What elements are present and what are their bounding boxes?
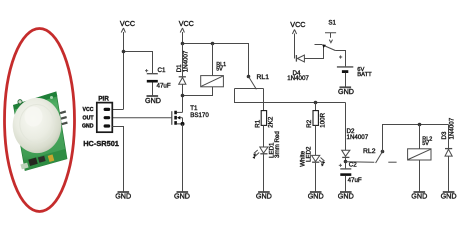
svg-text:1N4007: 1N4007 [347,134,369,141]
wire VCC rail to C1 [124,52,153,74]
svg-text:100R: 100R [320,112,327,127]
svg-text:GND: GND [145,96,161,105]
svg-text:VCC: VCC [179,19,194,28]
svg-text:S1: S1 [328,20,336,27]
node junction coil/drain [181,94,185,98]
svg-text:VCC: VCC [83,107,94,113]
svg-text:C1: C1 [158,67,166,74]
ground below T1 source [177,191,189,193]
svg-text:BATT: BATT [357,72,372,78]
diode D2 1N4007 [342,103,350,169]
ground below LED2 [310,191,322,193]
ground below battery [340,86,352,88]
relay contact RL2 [376,125,449,164]
wire contact to R1 [263,89,265,111]
resistor R2 100R [313,103,318,156]
ground below C2 [340,191,352,193]
capacitor C2 47uF [339,164,352,192]
svg-text:BS170: BS170 [190,112,209,119]
svg-text:LED2: LED2 [305,146,312,162]
wire PIR GND pin down [112,127,123,193]
svg-text:OUT: OUT [83,115,95,121]
ground below LED1 [258,191,270,193]
wire to RL2 contact [346,161,375,163]
ground below C1 [147,95,159,97]
svg-text:GND: GND [441,192,457,201]
diode D4 1N4007 [296,45,323,62]
battery 6V BATT [337,55,353,87]
connector PIR labels [82,96,119,149]
svg-text:GND: GND [308,192,324,201]
svg-text:PIR: PIR [98,96,109,103]
node junction RL2 coil tap [418,123,422,127]
svg-text:5V: 5V [422,141,429,147]
svg-text:GND: GND [256,192,272,201]
svg-text:R2: R2 [306,119,313,127]
transistor T1 BS170 (n-mosfet) [112,111,184,192]
svg-text:RL2: RL2 [363,148,376,155]
ground below D3 [443,191,455,193]
svg-text:2K2: 2K2 [268,116,275,128]
LED1 3mm Red [253,147,269,192]
node junction VCC2 [181,42,185,46]
svg-text:3mm Red: 3mm Red [274,131,281,158]
relay contact RL1 [235,75,264,90]
svg-text:1N4007: 1N4007 [448,117,455,139]
svg-text:C2: C2 [349,162,357,169]
svg-text:1N4007: 1N4007 [183,50,190,72]
svg-text:VCC: VCC [120,19,135,28]
wire PIR VCC pin to VCC rail [112,109,123,111]
power VCC (net 1) [121,28,125,109]
wire contact to load bus [235,89,346,103]
ground below PIR [118,191,130,193]
resistor R1 2K2 [261,111,266,147]
svg-text:GND: GND [174,192,190,201]
svg-text:47uF: 47uF [348,177,362,184]
relay coil RL2 5V [408,125,431,193]
node junction coil tap [211,42,215,46]
capacitor C1 47uF [145,69,158,96]
node junction VCC/C1 [122,50,126,54]
svg-text:GND: GND [338,87,354,96]
svg-text:GND: GND [82,124,94,130]
svg-text:GND: GND [115,192,131,201]
svg-text:D3: D3 [441,131,448,139]
svg-text:R1: R1 [255,119,262,127]
connector PIR (HC-SR501) [97,103,113,133]
power VCC (net 3, battery side) [292,30,296,59]
red highlight ellipse [5,29,75,212]
svg-text:GND: GND [338,192,354,201]
svg-text:HC-SR501: HC-SR501 [83,139,119,148]
LED2 White [312,155,326,192]
svg-text:5V: 5V [216,67,223,73]
diode D3 1N4007 [445,125,452,193]
svg-text:GND: GND [411,192,427,201]
svg-text:47uF: 47uF [157,83,171,90]
svg-text:RL1: RL1 [257,74,270,81]
power VCC (net 2) [180,28,184,44]
svg-text:VCC: VCC [290,20,305,29]
node junction D2/C2/contact [344,160,348,164]
pin labels [82,107,94,130]
node junction R2 tap [314,101,318,105]
relay coil RL1 5V [183,44,224,96]
PIR module photo [13,92,68,171]
wire VCC bus to relay contact [183,44,249,77]
svg-text:1N4007: 1N4007 [287,75,309,82]
diode D1 1N4007 [179,44,186,113]
switch S1 [315,33,346,67]
ground below RL2 [414,191,426,193]
